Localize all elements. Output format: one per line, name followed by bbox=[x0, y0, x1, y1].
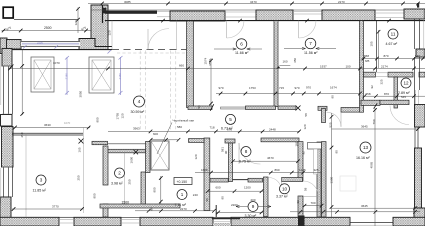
svg-text:658: 658 bbox=[366, 92, 371, 96]
room 11 inner dims bbox=[370, 30, 381, 68]
room 8 right wall x298-303 bbox=[298, 142, 303, 217]
svg-text:2448: 2448 bbox=[269, 127, 276, 131]
dimension line rooms 6/7 y93.5 bbox=[216, 85, 362, 98]
svg-text:8: 8 bbox=[245, 149, 248, 154]
svg-text:Чертёжный пан: Чертёжный пан bbox=[173, 119, 195, 123]
dimension 2270 hall bottom bbox=[135, 207, 216, 213]
glazing line blue bbox=[22, 40, 79, 48]
door arc room 8 bbox=[239, 143, 261, 164]
top overall dimension line bbox=[88, 0, 425, 5]
svg-text:3470: 3470 bbox=[250, 0, 257, 4]
svg-text:1605: 1605 bbox=[201, 168, 208, 172]
top wall pier T4 bbox=[404, 9, 425, 19]
dimension 120 vertical at x78 bbox=[74, 7, 80, 33]
svg-text:10: 10 bbox=[282, 187, 288, 192]
top wall window 3 (x293-322) bbox=[293, 12, 322, 14]
svg-text:120: 120 bbox=[74, 20, 78, 25]
bottom wall window 2 bbox=[121, 220, 140, 223]
svg-text:658: 658 bbox=[364, 54, 369, 58]
room 12 dims bbox=[370, 79, 406, 99]
dims room 10 right bbox=[295, 141, 324, 207]
room9/room10 divider x263.5-268 bbox=[264, 177, 269, 217]
svg-text:890: 890 bbox=[275, 168, 280, 172]
svg-text:165: 165 bbox=[78, 147, 82, 152]
room 10 label bbox=[276, 184, 290, 199]
svg-text:11.66 м²: 11.66 м² bbox=[235, 51, 249, 55]
extension line x83.5 bbox=[83, 127, 85, 213]
svg-text:545: 545 bbox=[415, 54, 420, 58]
svg-text:120: 120 bbox=[121, 113, 125, 118]
svg-text:160: 160 bbox=[283, 59, 288, 63]
svg-text:92: 92 bbox=[370, 85, 374, 89]
svg-text:600: 600 bbox=[153, 132, 158, 136]
tiny dim texts top area room4 bbox=[53, 30, 208, 67]
wall stub y138-142 x188-204 bbox=[189, 139, 205, 143]
room 13 left wall x317-321 with door gap bbox=[317, 109, 326, 218]
door arc corridor from room10 wall bbox=[303, 181, 319, 197]
svg-text:6: 6 bbox=[240, 42, 243, 47]
svg-text:660: 660 bbox=[179, 64, 184, 68]
glazing partition blue 2 bbox=[118, 56, 123, 95]
bottom wall face line across gaps bbox=[59, 216, 231, 218]
svg-text:870: 870 bbox=[384, 54, 389, 58]
svg-text:525: 525 bbox=[329, 122, 333, 127]
wall x321.5-326 vertical lower corridor bbox=[322, 142, 327, 217]
bottom wall entrance gap bbox=[212, 205, 240, 226]
bottom exterior wall hatched band bbox=[0, 217, 425, 226]
right wall face across window bbox=[414, 90, 416, 105]
svg-text:325: 325 bbox=[314, 168, 319, 172]
svg-text:+0.150: +0.150 bbox=[177, 180, 188, 184]
interior wall x359.5 vertical (hatched) bbox=[360, 21, 364, 113]
room 9 label with leaders bbox=[236, 202, 271, 219]
svg-text:1674: 1674 bbox=[330, 85, 337, 89]
svg-text:6.75 м²: 6.75 м² bbox=[239, 159, 251, 163]
svg-text:3645: 3645 bbox=[361, 204, 368, 208]
svg-text:970: 970 bbox=[306, 85, 311, 89]
svg-text:3050: 3050 bbox=[79, 90, 83, 97]
svg-text:11.56 м²: 11.56 м² bbox=[304, 51, 318, 55]
tick at left pier corner bbox=[10, 65, 14, 69]
right exterior wall upper bbox=[415, 19, 420, 49]
svg-text:1070: 1070 bbox=[64, 121, 71, 125]
svg-text:715: 715 bbox=[279, 86, 284, 90]
svg-text:250: 250 bbox=[77, 175, 81, 180]
svg-text:700: 700 bbox=[311, 201, 316, 205]
svg-text:3963: 3963 bbox=[133, 126, 140, 130]
wardrobe/window X-box 2 in room 4 bbox=[89, 57, 114, 93]
dims room 8 bbox=[221, 147, 300, 163]
left exterior pier top (two-step) bbox=[0, 38, 21, 54]
svg-text:3.98 м²: 3.98 м² bbox=[111, 181, 123, 185]
faint furniture rectangle room 13 bbox=[340, 176, 356, 191]
small mark top-right corner bbox=[417, 3, 419, 8]
svg-text:2500: 2500 bbox=[37, 40, 43, 44]
vertical dimension x375 room 13 bbox=[370, 108, 377, 226]
dims rooms 9 top bbox=[195, 168, 321, 174]
hall/room3 wall x103-108 vertical bbox=[103, 146, 108, 217]
room 10 top wall with door bbox=[269, 178, 303, 191]
door arc into room 13 bbox=[327, 112, 342, 127]
dimension row right y58.5 bbox=[362, 54, 425, 63]
bottom wall pier dark bbox=[298, 216, 305, 227]
right exterior wall mid bbox=[415, 57, 420, 90]
right wall thin segment bbox=[415, 127, 418, 148]
label note with leader bbox=[157, 119, 194, 154]
svg-text:4: 4 bbox=[138, 99, 141, 104]
vertical dimension x211 room 6 bbox=[208, 58, 213, 106]
svg-text:92: 92 bbox=[302, 151, 306, 155]
glazing partition blue 1 bbox=[65, 56, 70, 95]
hall wall x141-145.5 vertical lower bbox=[141, 172, 146, 205]
adjacent balcony outline left edge bbox=[0, 55, 2, 203]
room 1 label bbox=[175, 190, 188, 207]
top wall inner face line bbox=[105, 19, 425, 23]
svg-text:970: 970 bbox=[219, 86, 224, 90]
dimension 3645 bottom room 13 bbox=[332, 204, 418, 210]
column square top-left bbox=[3, 7, 13, 18]
svg-text:90: 90 bbox=[205, 198, 209, 202]
svg-text:325: 325 bbox=[380, 79, 384, 84]
interior wall x227.5 vertical (hall/room9 area) bbox=[229, 143, 233, 182]
svg-text:2180: 2180 bbox=[65, 73, 69, 80]
balcony door arc top-center bbox=[148, 29, 169, 50]
room 8 label bbox=[239, 147, 251, 164]
svg-text:760: 760 bbox=[372, 119, 376, 124]
right wall window bbox=[416, 90, 419, 104]
svg-text:90: 90 bbox=[150, 207, 154, 211]
room 2 label bbox=[111, 168, 125, 185]
dimension line x22 room4 left bbox=[20, 50, 24, 116]
svg-text:1070: 1070 bbox=[53, 61, 60, 65]
room 8 top wall segments y140.3-144 bbox=[225, 138, 299, 143]
interior wall room4/room6 vertical (hatched) bbox=[187, 21, 194, 108]
room 4 label bbox=[131, 96, 145, 114]
left balcony window band with glazing bbox=[21, 41, 80, 47]
bottom-left corner block bbox=[0, 197, 11, 226]
loggia side lines of room 4 bbox=[112, 21, 177, 50]
svg-text:100: 100 bbox=[346, 64, 351, 68]
left wall mid block bbox=[1, 115, 13, 127]
balcony door arc room 6 bbox=[227, 21, 244, 38]
svg-text:58: 58 bbox=[304, 113, 308, 117]
room 11 label bbox=[386, 29, 399, 46]
dimension 3645 room 13 width bbox=[332, 125, 420, 131]
wall thickness text corridor bbox=[197, 105, 308, 130]
svg-text:7.11 м²: 7.11 м² bbox=[175, 203, 187, 207]
junction wall J1 y141.3 x92-107.5 bbox=[92, 141, 108, 144]
room 13 label bbox=[356, 142, 371, 160]
svg-text:2500: 2500 bbox=[44, 26, 52, 30]
room 7 label with leaders bbox=[284, 38, 336, 55]
svg-text:90: 90 bbox=[224, 150, 228, 154]
svg-text:58: 58 bbox=[197, 105, 201, 109]
top wall window 4 (x375-404) bbox=[375, 13, 404, 18]
svg-text:120: 120 bbox=[303, 124, 307, 129]
top wall window 2 (x225-256) bbox=[225, 12, 256, 17]
door leaf in corridor bbox=[308, 143, 322, 175]
left wall inner face lines bbox=[12, 66, 14, 197]
door arc room 13 top bbox=[390, 106, 409, 125]
svg-text:3.37 м²: 3.37 м² bbox=[276, 194, 288, 198]
dimension line 675/2500/675 bbox=[2, 26, 97, 33]
room 13 top wall y100-105.5 bbox=[361, 100, 409, 108]
svg-text:6.73 м²: 6.73 м² bbox=[221, 126, 233, 130]
top wall pier T1 bbox=[170, 11, 225, 21]
svg-text:900: 900 bbox=[96, 117, 100, 122]
top wall outer face line bbox=[91, 9, 425, 11]
svg-text:180: 180 bbox=[295, 141, 299, 146]
room 11 partition bbox=[376, 21, 378, 72]
wall between rooms 3 and 4 (y134 partition) bbox=[12, 133, 83, 135]
left wall window upper bbox=[2, 66, 12, 114]
left wall hatched pier tall bbox=[2, 127, 14, 168]
dashed overhead line in room 4 bbox=[117, 52, 188, 54]
adjacent outline right edge bbox=[423, 8, 425, 57]
svg-text:11: 11 bbox=[391, 32, 396, 37]
top wall pier T2 bbox=[256, 10, 293, 21]
dimension 3630 room 4 bottom bbox=[13, 121, 90, 130]
dimension line y131 center bbox=[108, 125, 301, 133]
hall wall x145.5-150 vertical bbox=[146, 142, 151, 173]
interior wall rooms/corridor horizontal y106-109.5 bbox=[188, 104, 301, 111]
balcony door arc room 7 bbox=[299, 21, 316, 38]
bottom dimension line right y211.8 bbox=[290, 210, 420, 214]
svg-text:1574: 1574 bbox=[204, 57, 208, 64]
svg-text:90: 90 bbox=[335, 150, 339, 154]
balcony parapet line top-left bbox=[14, 19, 78, 21]
extension line x26 room 3 bbox=[25, 133, 27, 217]
vent shaft with X bbox=[151, 141, 169, 170]
corridor south wall left segment y108-112 bbox=[318, 106, 363, 112]
svg-text:900: 900 bbox=[93, 193, 97, 198]
svg-text:1937: 1937 bbox=[320, 64, 327, 68]
interior wall room6/room7 vertical bbox=[274, 21, 278, 107]
svg-text:1755: 1755 bbox=[116, 112, 120, 119]
room 6 label with leaders bbox=[214, 39, 262, 56]
svg-text:2270: 2270 bbox=[338, 0, 345, 4]
svg-text:5: 5 bbox=[229, 117, 232, 122]
small blue mark left of room4 bbox=[108, 50, 112, 54]
svg-text:13: 13 bbox=[363, 145, 369, 150]
svg-text:250: 250 bbox=[20, 132, 24, 137]
svg-text:4065: 4065 bbox=[370, 161, 374, 168]
svg-text:545: 545 bbox=[401, 95, 406, 99]
dimension 3770 room 3 bottom bbox=[12, 205, 84, 211]
right wall balcony divider block bbox=[416, 49, 425, 57]
dimension 600 at shaft bbox=[149, 132, 180, 141]
corridor wall right y72-77 bbox=[364, 72, 425, 77]
wardrobe/window X-box 1 in room 4 bbox=[31, 57, 54, 92]
left wall window lower bbox=[2, 167, 12, 197]
right wall hatched pier bbox=[415, 105, 425, 128]
svg-text:9: 9 bbox=[252, 204, 255, 209]
dashed beam lines room 4 bbox=[140, 51, 176, 132]
hall west wall vertical x204-210 bbox=[204, 138, 210, 211]
bottom wall lowered segment right bbox=[350, 223, 393, 226]
svg-text:92: 92 bbox=[296, 200, 300, 204]
svg-text:350: 350 bbox=[293, 58, 297, 63]
svg-text:16.16 м²: 16.16 м² bbox=[356, 156, 370, 160]
vertical dimension x331.5 room 13 bbox=[329, 113, 339, 217]
svg-text:3085: 3085 bbox=[124, 0, 131, 4]
svg-text:105: 105 bbox=[370, 41, 374, 46]
svg-text:3.30 м²: 3.30 м² bbox=[245, 214, 257, 218]
tick X at partition end bbox=[79, 139, 84, 144]
top-left corner exterior wall (L-shaped, hatched) bbox=[79, 5, 112, 50]
bottom wall window 1 bbox=[59, 220, 74, 223]
vertical dimension x160.8 hall bbox=[159, 176, 163, 204]
elevation mark box +0.150 bbox=[174, 178, 192, 185]
svg-text:240: 240 bbox=[193, 193, 198, 197]
room 3 label bbox=[33, 175, 47, 192]
svg-text:970: 970 bbox=[295, 86, 300, 90]
svg-text:120: 120 bbox=[108, 30, 112, 35]
room 5 label bbox=[221, 114, 236, 130]
svg-text:900: 900 bbox=[153, 187, 157, 192]
thin line over J2 wall bbox=[108, 144, 146, 204]
dims room 9 bbox=[205, 185, 263, 214]
room 12 partition x394-397.5 bbox=[394, 77, 398, 108]
svg-text:1600: 1600 bbox=[130, 156, 134, 163]
svg-text:1300: 1300 bbox=[330, 176, 334, 183]
svg-text:58: 58 bbox=[304, 187, 308, 191]
vestibule wall y178.3-182 bbox=[210, 178, 263, 182]
svg-text:30.59 м²: 30.59 м² bbox=[131, 110, 145, 114]
svg-text:7: 7 bbox=[309, 41, 312, 46]
svg-text:11.85 м²: 11.85 м² bbox=[33, 188, 47, 192]
small dims hall area bbox=[116, 112, 199, 204]
wall thickness leader rooms 6/7 bbox=[277, 58, 298, 69]
svg-text:2.89 м²: 2.89 м² bbox=[398, 91, 410, 95]
svg-text:4.67 м²: 4.67 м² bbox=[386, 42, 398, 46]
svg-text:1500: 1500 bbox=[122, 200, 130, 204]
svg-text:3570: 3570 bbox=[208, 59, 212, 66]
svg-text:90: 90 bbox=[331, 95, 335, 99]
top wall pier T3 bbox=[322, 10, 375, 21]
dimension row right y96.2 bbox=[363, 92, 425, 98]
svg-text:1: 1 bbox=[181, 192, 184, 197]
svg-text:1753: 1753 bbox=[249, 86, 256, 90]
svg-text:3645: 3645 bbox=[361, 125, 368, 129]
svg-text:580: 580 bbox=[177, 125, 182, 129]
svg-text:685: 685 bbox=[365, 59, 370, 63]
top wall solid segment bbox=[105, 11, 157, 14]
svg-text:250: 250 bbox=[128, 179, 132, 184]
svg-text:2270: 2270 bbox=[180, 207, 187, 211]
junction wall J2 y149.3 x107.5-145.5 bbox=[108, 149, 146, 153]
svg-text:3: 3 bbox=[40, 178, 43, 183]
rotated small dims left area bbox=[20, 90, 100, 198]
svg-text:3630: 3630 bbox=[44, 123, 51, 127]
interior face line of top-left room (y49.6) with balcony door gap bbox=[7, 49, 189, 51]
svg-text:600: 600 bbox=[216, 185, 221, 189]
bottom-right corner block bbox=[414, 208, 425, 226]
long horizontal dimension line y68.5 bbox=[8, 64, 425, 70]
svg-text:2180: 2180 bbox=[118, 73, 122, 80]
svg-text:3770: 3770 bbox=[52, 205, 59, 209]
room 12 label bbox=[398, 78, 411, 95]
right wall hatched lower bbox=[415, 148, 422, 208]
svg-text:12: 12 bbox=[403, 81, 409, 86]
room2 hall bottom wall y204-208 bbox=[100, 204, 180, 208]
svg-text:120: 120 bbox=[194, 154, 198, 159]
svg-text:870: 870 bbox=[384, 92, 389, 96]
svg-text:2: 2 bbox=[118, 171, 121, 176]
svg-text:90: 90 bbox=[221, 196, 225, 200]
svg-text:2174: 2174 bbox=[381, 64, 388, 68]
svg-text:1235: 1235 bbox=[299, 168, 306, 172]
svg-text:4670: 4670 bbox=[267, 156, 274, 160]
svg-text:718: 718 bbox=[210, 126, 215, 130]
left wall pier 2 bbox=[2, 49, 12, 67]
top wall window 1 (x157-170) bbox=[157, 12, 170, 17]
svg-text:1200: 1200 bbox=[244, 185, 251, 189]
